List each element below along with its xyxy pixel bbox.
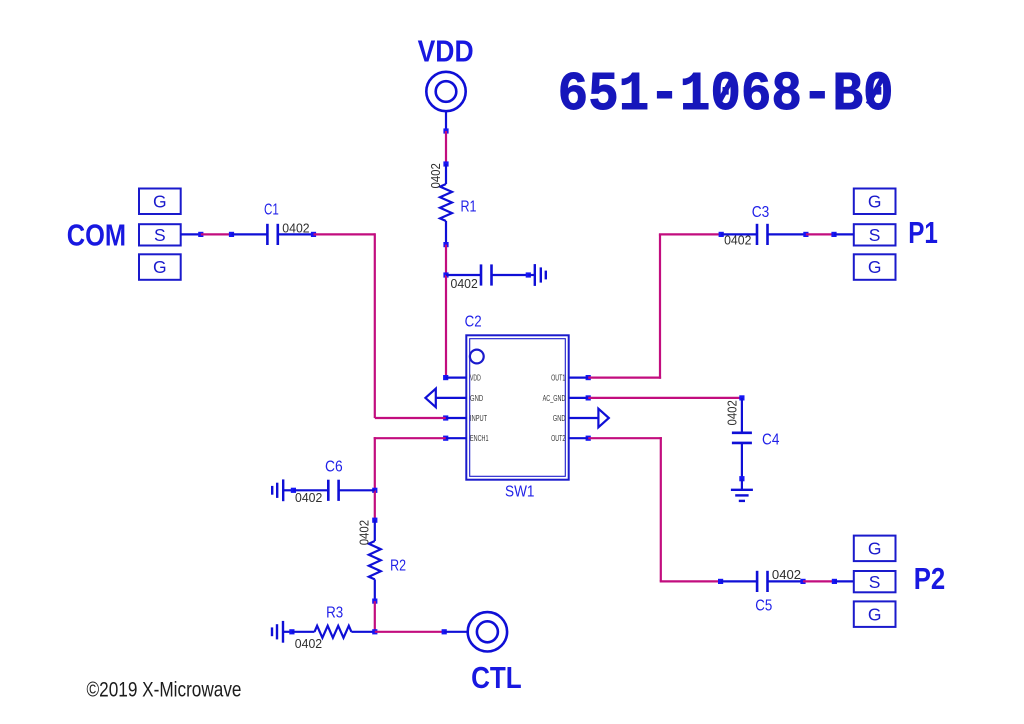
ground (C6) [272,479,283,501]
wire SW1 VDD pin stub [443,375,466,380]
junction [289,629,294,634]
wire [374,437,446,439]
capacitor C5 [755,568,801,615]
port pad G (top) [854,189,896,215]
wire SW1 AC_GND pin stub [569,395,591,400]
wire [436,397,467,399]
wire [492,274,529,276]
wire [834,233,854,235]
wire [569,377,589,379]
wire R3 node to CTL [372,629,468,634]
junction [443,128,448,133]
junction [803,232,808,237]
svg-text:0402: 0402 [772,568,801,582]
svg-text:S: S [869,225,881,245]
wire SW1 OUT1 to C3 [588,232,757,379]
wire [768,580,804,582]
IC SW1 [466,335,568,500]
svg-text:P2: P2 [914,561,946,596]
svg-text:G: G [868,604,882,624]
junction [831,232,836,237]
ground (R3) [272,621,283,643]
wire [721,233,757,235]
svg-text:G: G [153,257,167,277]
junction [443,242,448,247]
wire [806,233,834,235]
wire [181,233,201,235]
wire VDD terminal to R1 [443,111,448,184]
wire [741,479,743,490]
junction [443,436,448,441]
terminal VDD [426,72,465,111]
terminal CTL [468,612,507,651]
wire [232,233,268,235]
wire C4 to ground [739,443,744,490]
svg-text:C5: C5 [755,598,772,615]
svg-text:C3: C3 [752,204,770,221]
port pad G (top) [139,189,181,215]
resistor R3 [283,605,375,651]
svg-text:S: S [154,225,166,245]
junction [586,375,591,380]
wire [445,131,447,164]
wire SW1 GND-right arrow [569,409,609,428]
wire [339,489,375,491]
resistor R1 [429,163,476,221]
port pad S [854,571,896,592]
wire [660,580,721,582]
wire SW1 OUT2 pin stub [569,436,591,441]
junction [718,579,723,584]
junction [739,395,744,400]
svg-text:G: G [868,257,882,277]
svg-text:OUT1: OUT1 [551,374,566,383]
wire [741,398,743,433]
wire [445,164,447,184]
svg-text:VDD: VDD [470,374,481,383]
wire [588,377,661,379]
svg-text:0402: 0402 [726,400,740,425]
capacitor C3 [724,204,769,247]
junction [372,599,377,604]
title text 651-1068-B0 [558,65,894,126]
svg-text:OUT2: OUT2 [551,434,566,443]
svg-text:INPUT: INPUT [470,414,487,423]
junction [800,579,805,584]
wire [375,631,444,633]
svg-text:0402: 0402 [295,637,322,651]
wire [528,274,535,276]
capacitor C1 [264,202,310,245]
wire [445,245,447,275]
junction [291,488,296,493]
node C6 junction [372,488,377,493]
svg-text:0402: 0402 [282,221,309,235]
wire SW1 GND-left arrow [425,389,466,408]
capacitor C6 [283,459,375,506]
wire [201,233,232,235]
svg-text:R2: R2 [390,557,406,574]
wire [588,437,662,439]
wire [446,377,467,379]
wire [588,397,742,399]
svg-text:S: S [869,572,881,592]
wire [314,233,375,235]
svg-text:C2: C2 [465,314,482,331]
svg-text:0402: 0402 [724,233,751,247]
wire [445,111,447,131]
wire [721,580,758,582]
ground (C4) [731,490,753,501]
wire [374,437,376,490]
svg-text:G: G [868,191,882,211]
wire [660,437,662,581]
junction [442,629,447,634]
port pad G (bottom) [139,254,181,279]
wire [444,631,468,633]
wire [659,234,661,378]
wire COM S to C1 [181,232,268,237]
wire C1 to SW1 INPUT [278,232,446,418]
wire SW1 AC_GND to C4 [588,395,744,433]
wire [569,417,599,419]
svg-text:R1: R1 [461,199,477,216]
wire [375,417,446,419]
capacitor C2 [446,264,535,330]
wire C3 to P1 S [768,232,854,237]
resistor R2 [358,518,407,604]
port COM [139,189,181,280]
wire [768,233,806,235]
wire SW1 INPUT pin stub [443,415,466,420]
junction [198,232,203,237]
port pad G (bottom) [854,254,896,279]
svg-text:0402: 0402 [451,277,478,291]
wire [374,233,376,418]
junction [311,232,316,237]
svg-text:R3: R3 [326,605,343,622]
wire [446,274,481,276]
svg-text:0402: 0402 [358,520,372,545]
wire [834,580,853,582]
wire [445,275,447,378]
capacitor C4 [726,400,780,448]
wire [374,579,376,601]
svg-text:ENCH1: ENCH1 [470,434,489,443]
port pad S [854,224,896,245]
svg-text:C6: C6 [325,459,343,476]
wire [292,631,315,633]
port P1 [854,189,896,280]
wire [374,520,376,541]
svg-text:SW1: SW1 [505,484,535,501]
svg-text:P1: P1 [908,215,938,250]
node VDD junction [443,272,448,277]
svg-text:©2019 X-Microwave: ©2019 X-Microwave [87,679,242,702]
port pad S [139,224,181,245]
wire [351,631,374,633]
svg-text:G: G [153,191,167,211]
wire [278,233,314,235]
wire C5 to P2 S [768,579,854,584]
port pad G (bottom) [854,601,896,627]
wire [445,221,447,245]
wire [446,437,467,439]
wire [659,233,721,235]
svg-text:CTL: CTL [471,660,522,695]
wire SW1 ENCH1 to R2 [372,437,446,520]
wire [803,580,834,582]
junction [832,579,837,584]
wire SW1 ENCH1 pin stub [443,436,466,441]
svg-text:GND: GND [553,414,566,423]
port pad G (top) [854,536,896,562]
svg-text:0402: 0402 [295,491,322,505]
svg-text:0402: 0402 [429,163,443,188]
junction [586,395,591,400]
junction [443,375,448,380]
junction [443,161,448,166]
wire [374,490,376,520]
wire [283,631,292,633]
junction [586,436,591,441]
svg-text:AC_GND: AC_GND [543,394,566,403]
junction [229,232,234,237]
ground (C2) [535,264,546,286]
wire [283,489,293,491]
wire [446,417,467,419]
port P2 [854,536,896,627]
svg-text:G: G [868,538,882,558]
wire [293,489,328,491]
svg-text:C1: C1 [264,202,279,219]
svg-text:COM: COM [67,218,126,253]
wire SW1 OUT2 to C5 [588,437,757,584]
wire [569,437,589,439]
junction [372,518,377,523]
svg-text:VDD: VDD [418,34,474,69]
node CTL junction [372,629,377,634]
junction [443,415,448,420]
wire SW1 OUT1 pin stub [569,375,591,380]
wire [569,397,589,399]
junction [526,272,531,277]
svg-text:GND: GND [470,394,483,403]
junction [739,476,744,481]
wire R2 to R3 node [374,601,376,632]
wire [741,443,743,479]
svg-text:C4: C4 [762,432,780,449]
wire R1 to SW1 VDD pin [443,221,448,378]
junction [719,232,724,237]
